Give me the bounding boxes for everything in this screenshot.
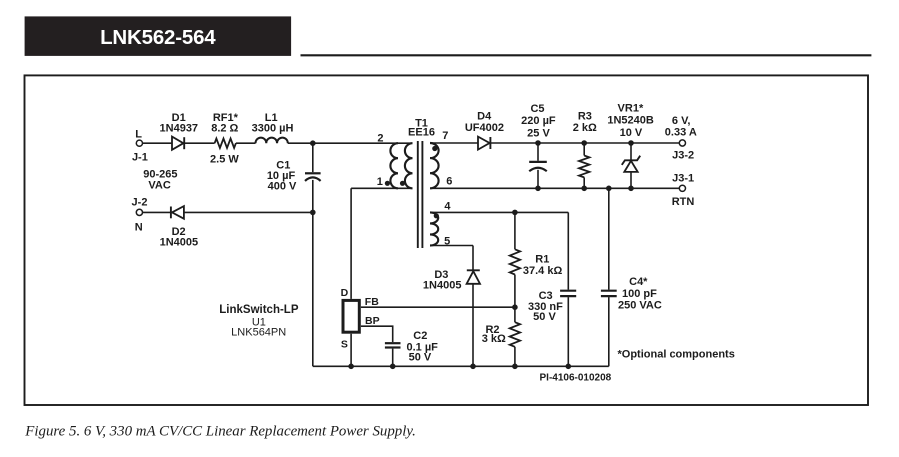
polarity dot primary a	[385, 181, 390, 186]
wire N to D2	[143, 211, 171, 213]
diode D3	[467, 270, 480, 284]
svg-text:FB: FB	[365, 296, 379, 308]
svg-text:50 V: 50 V	[409, 352, 432, 364]
core line 2	[421, 141, 423, 248]
svg-text:VAC: VAC	[148, 179, 170, 191]
svg-text:Figure 5. 6 V, 330 mA CV/CC Li: Figure 5. 6 V, 330 mA CV/CC Linear Repla…	[24, 424, 416, 440]
svg-text:8.2 Ω: 8.2 Ω	[211, 123, 238, 135]
wire D4 to J3-2	[490, 142, 679, 144]
svg-text:LNK564PN: LNK564PN	[231, 327, 286, 339]
svg-text:R3: R3	[578, 111, 592, 123]
svg-text:7: 7	[442, 130, 448, 142]
svg-text:3300 µH: 3300 µH	[252, 123, 294, 135]
diode D1	[172, 137, 184, 150]
node C5 top	[535, 140, 541, 146]
svg-text:250 VAC: 250 VAC	[618, 299, 662, 311]
svg-text:J-2: J-2	[132, 197, 148, 209]
wire pin5 down to D3	[472, 246, 474, 271]
header rule	[301, 54, 872, 56]
svg-text:1N4005: 1N4005	[423, 280, 462, 292]
node R3 bottom	[581, 186, 587, 192]
svg-text:EE16: EE16	[408, 127, 435, 139]
node VR1 bottom	[628, 186, 634, 192]
title bar	[25, 16, 292, 56]
wire C4 lower lead	[608, 297, 610, 366]
wire C3 lower lead	[567, 297, 569, 366]
wire D3 to bus	[472, 284, 474, 367]
svg-text:1: 1	[377, 176, 383, 188]
wire pin5 run	[430, 245, 473, 247]
diode D2	[171, 206, 184, 219]
svg-text:J3-2: J3-2	[672, 149, 694, 161]
node C2 bottom	[390, 364, 396, 370]
wire D1 to RF1	[184, 142, 214, 144]
wire bus left leg	[312, 212, 314, 366]
node C1 bottom	[310, 210, 316, 216]
resistor R3	[579, 143, 589, 188]
svg-text:S: S	[341, 339, 348, 351]
node VR1 top	[628, 140, 634, 146]
wire C3 branch down	[567, 212, 569, 289]
wire C4 upper lead	[608, 188, 610, 289]
polarity dot primary b	[400, 181, 405, 186]
terminal J3-2	[679, 140, 685, 146]
schematic frame	[25, 75, 869, 405]
wire source bus	[313, 365, 609, 367]
core line 1	[417, 141, 419, 248]
wire pin7 to D4	[430, 142, 478, 144]
svg-text:LinkSwitch-LP: LinkSwitch-LP	[219, 304, 299, 316]
polarity dot bias	[434, 213, 439, 218]
bias winding 4-5	[430, 212, 438, 245]
svg-text:4: 4	[444, 200, 451, 212]
wire FB	[361, 306, 515, 308]
wire C1 lower lead	[312, 180, 314, 213]
node S bottom	[348, 364, 354, 370]
wire source	[350, 334, 352, 367]
svg-text:*Optional components: *Optional components	[618, 349, 735, 361]
svg-text:VR1*: VR1*	[618, 103, 644, 115]
svg-text:25 V: 25 V	[527, 127, 550, 139]
svg-text:C5: C5	[530, 103, 544, 115]
svg-text:6 V,: 6 V,	[672, 115, 691, 127]
resistor RF1	[215, 139, 236, 148]
svg-text:RTN: RTN	[672, 196, 695, 208]
terminal J-2 (N)	[136, 209, 142, 215]
svg-text:0.33 A: 0.33 A	[665, 127, 697, 139]
svg-text:37.4 kΩ: 37.4 kΩ	[523, 265, 563, 277]
resistor R1	[510, 212, 520, 307]
svg-text:PI-4106-010208: PI-4106-010208	[540, 372, 612, 383]
svg-text:6: 6	[446, 175, 452, 187]
wire C5 lower lead	[537, 170, 539, 189]
svg-text:2.5 W: 2.5 W	[210, 153, 239, 165]
capacitor C3	[560, 291, 576, 296]
svg-text:50 V: 50 V	[533, 311, 556, 323]
polarity dot secondary	[432, 146, 437, 151]
svg-text:220 µF: 220 µF	[521, 115, 556, 127]
svg-text:D4: D4	[477, 111, 492, 123]
wire RF1 to L1	[236, 142, 256, 144]
node C5 bottom	[535, 186, 541, 192]
svg-text:2: 2	[377, 132, 383, 144]
capacitor C4	[601, 291, 617, 296]
wire pin4 run	[430, 211, 568, 213]
primary winding column 2	[405, 143, 413, 188]
svg-text:L: L	[135, 128, 142, 140]
node C4 top	[606, 186, 612, 192]
svg-text:400 V: 400 V	[268, 180, 297, 192]
wire BP	[361, 326, 393, 342]
resistor R2	[510, 307, 520, 366]
secondary winding 7-6	[430, 143, 439, 188]
svg-text:UF4002: UF4002	[465, 122, 504, 134]
node C1 top	[310, 140, 316, 146]
svg-text:C2: C2	[413, 330, 427, 342]
wire C5 upper lead	[537, 143, 539, 161]
node D3 bottom	[470, 364, 476, 370]
ic U1 body	[343, 300, 359, 332]
svg-text:1N5240B: 1N5240B	[607, 115, 654, 127]
zener VR1	[622, 143, 640, 188]
node R3 top	[581, 140, 587, 146]
svg-text:100 pF: 100 pF	[622, 288, 657, 300]
node FB junction	[512, 304, 518, 310]
svg-text:J-1: J-1	[132, 152, 148, 164]
wire L1 to T1 pin2	[288, 142, 413, 144]
wire D2 to C1 node	[184, 211, 313, 213]
inductor L1	[256, 138, 288, 144]
node C3 bottom	[566, 364, 572, 370]
wire C2 lower lead	[392, 349, 394, 367]
svg-text:R1: R1	[535, 254, 549, 266]
svg-text:C4*: C4*	[629, 276, 648, 288]
wire T1 pin1	[351, 187, 412, 189]
svg-text:3 kΩ: 3 kΩ	[482, 333, 506, 345]
node R1 top	[512, 210, 518, 216]
capacitor C5	[529, 162, 547, 171]
svg-text:J3-1: J3-1	[672, 172, 694, 184]
svg-text:1N4937: 1N4937	[160, 123, 199, 135]
capacitor C2	[385, 343, 401, 347]
svg-text:1N4005: 1N4005	[160, 236, 199, 248]
wire C1 upper lead	[312, 143, 314, 172]
svg-text:N: N	[135, 221, 143, 233]
diode D4	[478, 137, 490, 150]
capacitor C1	[305, 173, 321, 181]
node R2 bottom	[512, 364, 518, 370]
wire pin6 to J3-1	[430, 187, 679, 189]
svg-text:D: D	[341, 287, 349, 299]
primary winding column 1	[390, 143, 398, 188]
wire drain	[350, 188, 352, 299]
svg-text:LNK562-564: LNK562-564	[100, 26, 216, 49]
terminal J3-1	[679, 185, 685, 191]
svg-text:2 kΩ: 2 kΩ	[573, 122, 597, 134]
svg-text:10 V: 10 V	[620, 127, 643, 139]
wire L to D1	[143, 142, 173, 144]
svg-text:BP: BP	[365, 315, 380, 327]
terminal J-1 (L)	[136, 140, 142, 146]
